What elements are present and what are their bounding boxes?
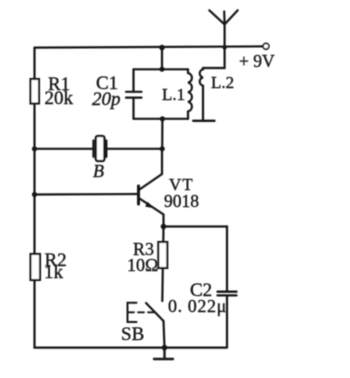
svg-text:SB: SB — [121, 324, 144, 345]
svg-text:L.2: L.2 — [211, 73, 234, 92]
wire: top +9V rail — [35, 46, 263, 47]
inductor L2 — [200, 68, 203, 121]
wire: bottom rail — [35, 347, 227, 349]
svg-text:20k: 20k — [45, 88, 74, 109]
node: top rail / tank feed — [159, 45, 165, 51]
wire: left rail — [33, 48, 35, 348]
wire: R3 to switch — [161, 268, 164, 301]
ground (bottom) — [154, 348, 173, 359]
antenna — [209, 10, 237, 47]
ground (L2) — [193, 120, 214, 122]
wire: tank bottom to collector — [161, 119, 163, 149]
node: left rail / crystal wire — [32, 146, 37, 151]
transistor VT base bar — [137, 186, 140, 204]
transistor VT emitter arrow — [145, 202, 154, 209]
resistor R2 — [31, 254, 41, 280]
switch SB arm — [146, 303, 164, 321]
resistor R3 — [158, 242, 167, 268]
node: emitter junction — [161, 224, 167, 230]
switch SB lower wire — [164, 321, 165, 348]
wire: L2 feed — [203, 48, 225, 69]
svg-text:0. 022μ: 0. 022μ — [168, 296, 227, 316]
switch SB actuator dashed link — [128, 311, 154, 313]
wire: tank left upper — [132, 69, 134, 91]
resistor R1 — [31, 79, 40, 104]
transistor VT collector — [140, 149, 163, 190]
svg-text:10Ω: 10Ω — [127, 255, 158, 275]
svg-text:+ 9V: + 9V — [239, 51, 275, 71]
svg-text:L.1: L.1 — [162, 85, 185, 104]
terminal +9V circle — [263, 43, 269, 49]
transistor VT emitter — [140, 199, 164, 227]
crystal B plates — [94, 141, 107, 157]
wire: crystal to collector node — [106, 148, 162, 150]
svg-text:20p: 20p — [92, 89, 121, 110]
node: tank bottom — [160, 116, 165, 121]
inductor L1 — [188, 69, 192, 119]
node: bottom rail / switch — [162, 345, 168, 351]
capacitor C2 plates — [218, 292, 237, 296]
wire: emitter to R3 — [162, 227, 164, 243]
wire: emitter to C2 top — [164, 227, 228, 292]
node: left rail / base wire — [32, 192, 37, 197]
node: collector / crystal junction — [160, 146, 165, 151]
svg-text:9018: 9018 — [164, 191, 199, 211]
wire: base wire — [35, 193, 139, 196]
crystal B body — [96, 136, 105, 161]
wire: crystal feedback wire left — [35, 148, 93, 150]
switch SB actuator — [128, 303, 137, 322]
wire: tank left lower — [132, 98, 134, 119]
wire: tank top feed — [161, 48, 163, 70]
node: rail / antenna-L2 — [222, 45, 226, 49]
svg-text:1k: 1k — [44, 262, 64, 283]
wire: C2 bottom to rail — [226, 296, 228, 348]
node: tank top — [159, 67, 164, 72]
wire: tank bottom side — [134, 118, 189, 120]
wire: tank top side — [134, 68, 189, 70]
svg-text:B: B — [93, 161, 104, 181]
capacitor C1 plates — [126, 92, 142, 98]
